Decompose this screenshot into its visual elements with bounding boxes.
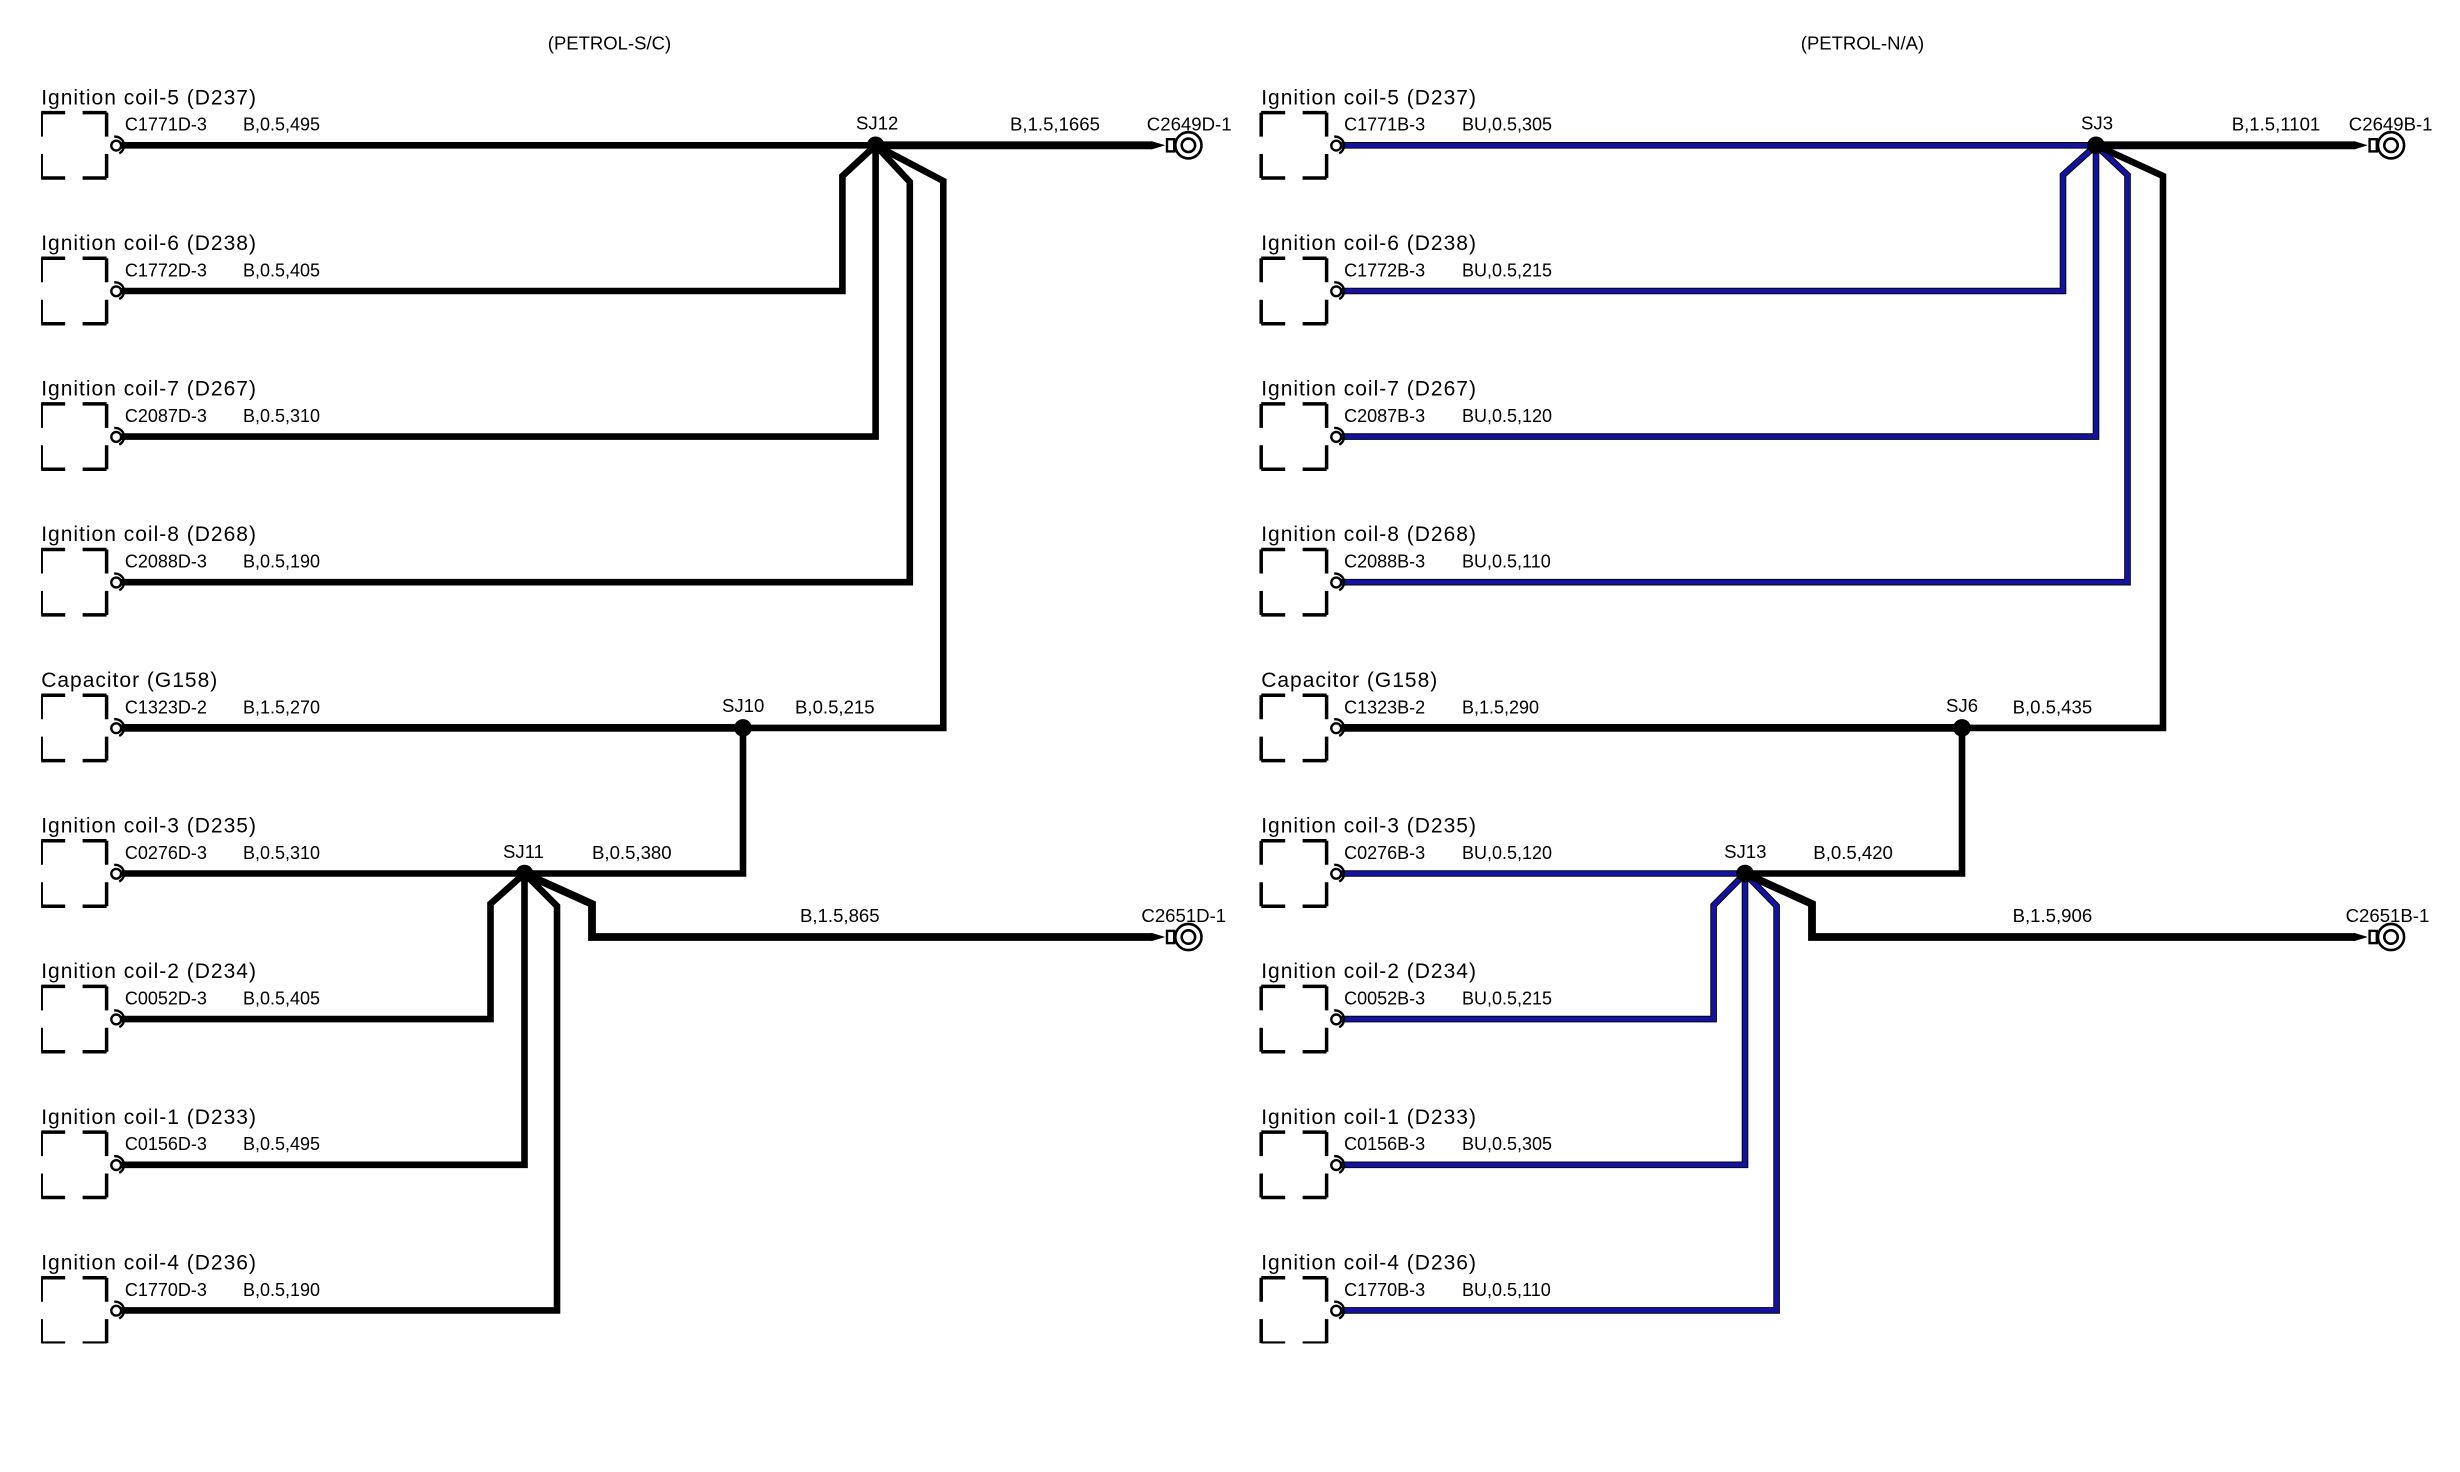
svg-text:B,1.5,906: B,1.5,906 xyxy=(2013,905,2093,926)
svg-text:C2649B-1: C2649B-1 xyxy=(2349,114,2433,135)
svg-text:BU,0.5,215: BU,0.5,215 xyxy=(1462,260,1552,280)
svg-text:C2088D-3: C2088D-3 xyxy=(125,552,207,572)
svg-text:Ignition coil-7 (D267): Ignition coil-7 (D267) xyxy=(41,378,257,401)
svg-text:Ignition coil-6 (D238): Ignition coil-6 (D238) xyxy=(41,232,257,255)
svg-text:Ignition coil-8 (D268): Ignition coil-8 (D268) xyxy=(1261,523,1477,546)
svg-text:B,0.5,310: B,0.5,310 xyxy=(243,843,320,863)
svg-text:C0052D-3: C0052D-3 xyxy=(125,989,207,1009)
svg-text:C2087B-3: C2087B-3 xyxy=(1344,406,1425,426)
svg-text:C0276B-3: C0276B-3 xyxy=(1344,843,1425,863)
svg-text:BU,0.5,305: BU,0.5,305 xyxy=(1462,115,1552,135)
svg-text:BU,0.5,110: BU,0.5,110 xyxy=(1462,1280,1551,1300)
svg-text:SJ13: SJ13 xyxy=(1724,841,1766,862)
svg-text:C1323B-2: C1323B-2 xyxy=(1344,697,1425,717)
svg-text:B,0.5,215: B,0.5,215 xyxy=(795,696,875,717)
svg-text:Ignition coil-2 (D234): Ignition coil-2 (D234) xyxy=(1261,960,1477,983)
svg-text:B,1.5,290: B,1.5,290 xyxy=(1462,697,1539,717)
svg-text:Ignition coil-1 (D233): Ignition coil-1 (D233) xyxy=(1261,1106,1477,1129)
svg-text:B,1.5,270: B,1.5,270 xyxy=(243,697,320,717)
svg-text:Ignition coil-5 (D237): Ignition coil-5 (D237) xyxy=(1261,86,1477,109)
svg-text:C1770B-3: C1770B-3 xyxy=(1344,1280,1425,1300)
svg-text:C0156B-3: C0156B-3 xyxy=(1344,1134,1425,1154)
svg-text:B,0.5,190: B,0.5,190 xyxy=(243,1280,320,1300)
svg-text:C0052B-3: C0052B-3 xyxy=(1344,989,1425,1009)
svg-text:B,1.5,865: B,1.5,865 xyxy=(800,905,880,926)
svg-text:B,0.5,310: B,0.5,310 xyxy=(243,406,320,426)
svg-text:Ignition coil-4 (D236): Ignition coil-4 (D236) xyxy=(41,1251,257,1274)
svg-text:SJ3: SJ3 xyxy=(2081,113,2113,134)
svg-text:C1771D-3: C1771D-3 xyxy=(125,115,207,135)
svg-text:Capacitor (G158): Capacitor (G158) xyxy=(1261,669,1438,692)
svg-text:C2088B-3: C2088B-3 xyxy=(1344,552,1425,572)
svg-text:Ignition coil-5 (D237): Ignition coil-5 (D237) xyxy=(41,86,257,109)
svg-text:C2649D-1: C2649D-1 xyxy=(1147,114,1232,135)
svg-text:Capacitor (G158): Capacitor (G158) xyxy=(41,669,218,692)
svg-text:Ignition coil-3 (D235): Ignition coil-3 (D235) xyxy=(41,815,257,838)
svg-text:B,0.5,420: B,0.5,420 xyxy=(1813,842,1893,863)
svg-text:Ignition coil-3 (D235): Ignition coil-3 (D235) xyxy=(1261,815,1477,838)
svg-text:Ignition coil-1 (D233): Ignition coil-1 (D233) xyxy=(41,1106,257,1129)
svg-text:BU,0.5,120: BU,0.5,120 xyxy=(1462,843,1552,863)
svg-text:C2087D-3: C2087D-3 xyxy=(125,406,207,426)
svg-text:(PETROL-N/A): (PETROL-N/A) xyxy=(1801,33,1924,54)
svg-text:B,0.5,380: B,0.5,380 xyxy=(592,842,672,863)
svg-text:C1772B-3: C1772B-3 xyxy=(1344,260,1425,280)
svg-text:C2651D-1: C2651D-1 xyxy=(1141,905,1226,926)
svg-text:B,0.5,435: B,0.5,435 xyxy=(2013,696,2093,717)
svg-text:C1771B-3: C1771B-3 xyxy=(1344,115,1425,135)
svg-text:B,1.5,1665: B,1.5,1665 xyxy=(1010,114,1100,135)
svg-text:(PETROL-S/C): (PETROL-S/C) xyxy=(548,33,671,54)
svg-text:C1323D-2: C1323D-2 xyxy=(125,697,207,717)
svg-text:Ignition coil-4 (D236): Ignition coil-4 (D236) xyxy=(1261,1251,1477,1274)
svg-text:C1770D-3: C1770D-3 xyxy=(125,1280,207,1300)
svg-text:BU,0.5,305: BU,0.5,305 xyxy=(1462,1134,1552,1154)
svg-text:B,0.5,405: B,0.5,405 xyxy=(243,989,320,1009)
svg-text:C2651B-1: C2651B-1 xyxy=(2346,905,2430,926)
svg-text:C0156D-3: C0156D-3 xyxy=(125,1134,207,1154)
svg-text:C1772D-3: C1772D-3 xyxy=(125,260,207,280)
svg-text:C0276D-3: C0276D-3 xyxy=(125,843,207,863)
svg-text:Ignition coil-8 (D268): Ignition coil-8 (D268) xyxy=(41,523,257,546)
svg-text:BU,0.5,110: BU,0.5,110 xyxy=(1462,552,1551,572)
svg-text:SJ10: SJ10 xyxy=(722,695,764,716)
svg-text:Ignition coil-2 (D234): Ignition coil-2 (D234) xyxy=(41,960,257,983)
svg-text:SJ12: SJ12 xyxy=(856,113,898,134)
svg-text:SJ11: SJ11 xyxy=(503,841,544,862)
svg-text:Ignition coil-7 (D267): Ignition coil-7 (D267) xyxy=(1261,378,1477,401)
svg-text:BU,0.5,120: BU,0.5,120 xyxy=(1462,406,1552,426)
svg-text:B,1.5,1101: B,1.5,1101 xyxy=(2232,114,2321,135)
svg-text:B,0.5,495: B,0.5,495 xyxy=(243,1134,320,1154)
svg-text:BU,0.5,215: BU,0.5,215 xyxy=(1462,989,1552,1009)
svg-text:B,0.5,405: B,0.5,405 xyxy=(243,260,320,280)
svg-text:B,0.5,190: B,0.5,190 xyxy=(243,552,320,572)
svg-text:SJ6: SJ6 xyxy=(1946,695,1978,716)
svg-text:B,0.5,495: B,0.5,495 xyxy=(243,115,320,135)
svg-text:Ignition coil-6 (D238): Ignition coil-6 (D238) xyxy=(1261,232,1477,255)
